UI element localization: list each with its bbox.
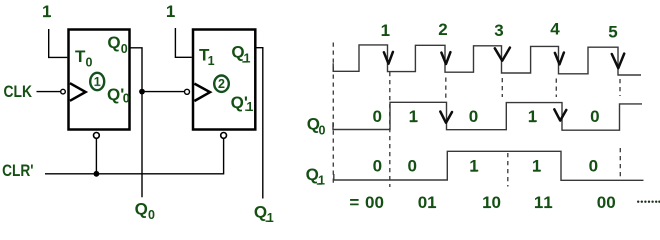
svg-text:1: 1: [534, 193, 543, 212]
svg-text:Q: Q: [306, 165, 319, 184]
svg-text:Q': Q': [107, 85, 124, 104]
svg-text:0: 0: [589, 157, 598, 176]
svg-text:0: 0: [590, 107, 599, 126]
svg-text:2: 2: [438, 20, 447, 39]
svg-text:0: 0: [372, 107, 381, 126]
svg-text:1: 1: [469, 157, 478, 176]
svg-text:Q: Q: [254, 202, 267, 221]
svg-text:1: 1: [381, 21, 390, 40]
svg-text:4: 4: [550, 20, 560, 39]
svg-text:1: 1: [543, 193, 552, 212]
svg-text:0: 0: [121, 42, 128, 56]
svg-text:1: 1: [532, 157, 541, 176]
svg-text:0: 0: [491, 193, 500, 212]
svg-text:2: 2: [218, 77, 225, 91]
svg-text:00: 00: [597, 193, 616, 212]
svg-text:Q: Q: [135, 199, 148, 218]
svg-text:0: 0: [148, 208, 155, 222]
svg-text:1: 1: [166, 2, 175, 21]
svg-text:1: 1: [318, 174, 325, 188]
svg-text:Q': Q': [231, 93, 248, 112]
svg-text:1: 1: [528, 107, 537, 126]
svg-text:0: 0: [86, 56, 93, 70]
svg-text:1: 1: [246, 100, 253, 114]
svg-text:CLR': CLR': [2, 161, 33, 180]
svg-text:1: 1: [94, 75, 101, 89]
svg-text:CLK: CLK: [4, 82, 33, 101]
svg-text:1: 1: [409, 107, 418, 126]
svg-text:00: 00: [365, 193, 384, 212]
svg-text:0: 0: [407, 157, 416, 176]
svg-text:0: 0: [418, 193, 427, 212]
svg-text:1: 1: [482, 193, 491, 212]
svg-text:1: 1: [267, 211, 274, 225]
svg-text:0: 0: [373, 157, 382, 176]
svg-text:0: 0: [319, 124, 326, 138]
svg-text:1: 1: [42, 2, 51, 21]
svg-text:1: 1: [244, 52, 251, 66]
svg-text:1: 1: [427, 193, 436, 212]
svg-text:0: 0: [469, 107, 478, 126]
svg-text:5: 5: [608, 23, 617, 42]
svg-text:Q: Q: [107, 33, 120, 52]
svg-text:3: 3: [494, 21, 503, 40]
svg-text:T: T: [75, 47, 86, 66]
svg-text:=: =: [349, 193, 359, 212]
svg-text:1: 1: [208, 54, 215, 68]
svg-text:0: 0: [123, 92, 130, 106]
